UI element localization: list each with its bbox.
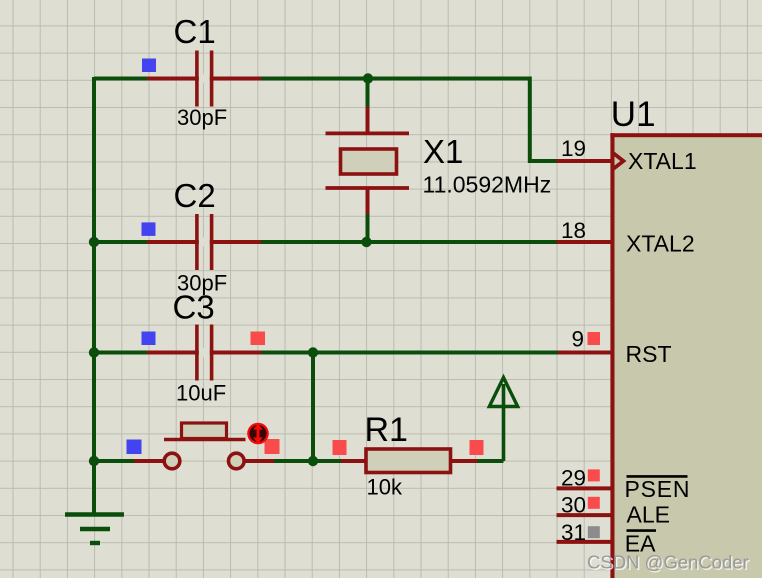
svg-text:CSDN @GenCoder: CSDN @GenCoder bbox=[587, 552, 749, 573]
node: button row riser junction bbox=[308, 456, 318, 466]
node: left bus XTAL2 junction bbox=[89, 237, 99, 247]
wire: crystal bottom stub (green part) bbox=[366, 210, 370, 242]
svg-text:C3: C3 bbox=[173, 289, 215, 326]
wire: RST net row bbox=[92, 351, 559, 355]
pin 29 marker red bbox=[588, 469, 600, 481]
wire: left vertical bus bbox=[92, 77, 96, 514]
svg-text:C1: C1 bbox=[174, 13, 216, 50]
node: left bus button row junction bbox=[89, 456, 99, 466]
svg-text:11.0592MHz: 11.0592MHz bbox=[423, 172, 552, 198]
power symbol VCC arrow bbox=[489, 378, 517, 462]
wire: reset button and R1 row bbox=[92, 459, 168, 463]
button pin marker blue bbox=[127, 440, 142, 455]
pin 30 wire bbox=[557, 513, 615, 517]
chip U1 body bbox=[610, 133, 762, 578]
wire: top net left bus to XTAL1 pin bbox=[94, 79, 558, 162]
wire: crystal top stub (green part) bbox=[366, 79, 370, 113]
node: left bus RST junction bbox=[89, 347, 99, 357]
svg-text:29: 29 bbox=[561, 466, 586, 491]
pin 19 wire bbox=[557, 159, 615, 163]
pin 29 wire bbox=[557, 486, 615, 490]
svg-text:30pF: 30pF bbox=[177, 105, 227, 130]
pin 30 marker red bbox=[588, 497, 600, 509]
svg-text:18: 18 bbox=[561, 218, 586, 243]
svg-text:U1: U1 bbox=[611, 95, 656, 134]
C3 pin marker blue bbox=[142, 332, 156, 346]
pin 18 wire bbox=[557, 240, 615, 244]
button interactive toggle bbox=[247, 423, 269, 445]
pin name PSEN with overline bbox=[625, 476, 691, 502]
R1 pin marker red right bbox=[470, 440, 484, 455]
wire: riser from RST row to button row bbox=[311, 353, 315, 462]
C3 pin marker red bbox=[251, 332, 266, 346]
wire: XTAL2 net row bbox=[92, 240, 558, 244]
pin name EA with overline bbox=[625, 531, 656, 557]
svg-text:R1: R1 bbox=[365, 411, 408, 449]
svg-text:31: 31 bbox=[561, 520, 586, 545]
svg-text:X1: X1 bbox=[423, 133, 463, 170]
C2 pin marker blue bbox=[142, 222, 156, 236]
svg-text:10uF: 10uF bbox=[176, 381, 226, 406]
capacitor C1 bbox=[147, 51, 261, 107]
XTAL1 clock chevron bbox=[614, 153, 624, 168]
node: crystal top junction bbox=[363, 73, 373, 83]
pin 9 wire bbox=[558, 351, 614, 355]
svg-text:ALE: ALE bbox=[627, 502, 670, 528]
pin 9 marker red bbox=[588, 332, 601, 345]
capacitor C2 bbox=[147, 214, 261, 270]
svg-text:C2: C2 bbox=[174, 177, 216, 214]
button pin marker red bbox=[265, 439, 280, 454]
pin 31 wire bbox=[557, 540, 615, 544]
svg-text:RST: RST bbox=[626, 341, 672, 367]
watermark CSDN GenCoder bbox=[587, 552, 750, 575]
capacitor C3 bbox=[147, 325, 261, 381]
svg-text:10k: 10k bbox=[367, 475, 403, 500]
svg-text:30: 30 bbox=[561, 493, 586, 518]
pin 31 marker gray bbox=[588, 526, 600, 538]
resistor R1 bbox=[341, 449, 478, 473]
crystal X1 bbox=[326, 107, 410, 214]
svg-text:9: 9 bbox=[571, 327, 584, 352]
node: crystal bottom junction bbox=[361, 237, 371, 247]
pushbutton (reset) bbox=[134, 423, 274, 469]
C1 pin marker blue bbox=[142, 59, 156, 73]
svg-text:XTAL2: XTAL2 bbox=[626, 231, 695, 257]
svg-text:PSEN: PSEN bbox=[625, 476, 691, 502]
svg-text:19: 19 bbox=[561, 136, 586, 161]
node: RST riser junction bbox=[308, 347, 318, 357]
R1 pin marker red left bbox=[333, 440, 347, 455]
svg-text:XTAL1: XTAL1 bbox=[628, 148, 697, 174]
ground symbol bbox=[65, 515, 124, 544]
